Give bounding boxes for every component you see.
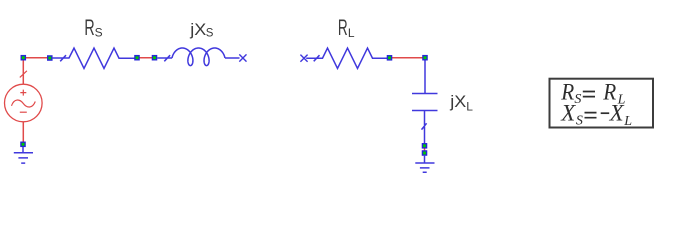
svg-text:S: S bbox=[574, 92, 581, 107]
svg-text:jX: jX bbox=[189, 20, 206, 39]
svg-text:S: S bbox=[95, 25, 103, 39]
svg-text:X: X bbox=[560, 101, 576, 126]
svg-text:L: L bbox=[623, 114, 632, 129]
svg-text:S: S bbox=[576, 113, 583, 128]
svg-text:X: X bbox=[609, 101, 625, 126]
svg-text:S: S bbox=[206, 28, 214, 40]
svg-text:R: R bbox=[84, 15, 94, 40]
svg-text:jX: jX bbox=[449, 92, 466, 111]
svg-text:R: R bbox=[338, 15, 348, 40]
svg-text:L: L bbox=[348, 26, 355, 40]
svg-text:L: L bbox=[466, 99, 473, 113]
